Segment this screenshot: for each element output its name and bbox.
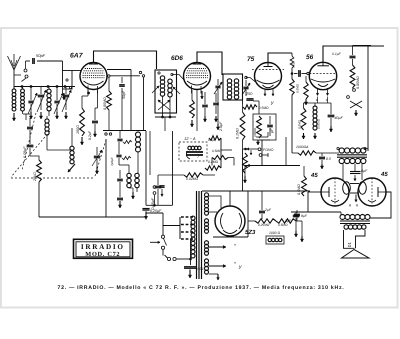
tube 45 left	[321, 178, 349, 206]
variable capacitor gang 2	[63, 94, 69, 96]
coil L1 antenna	[12, 89, 16, 93]
IF transformer T2 box	[223, 74, 243, 100]
wire B+ bus	[202, 190, 310, 192]
svg-text:250: 250	[245, 92, 253, 96]
ground output	[295, 231, 297, 237]
svg-text:IRRADIO: IRRADIO	[81, 243, 125, 251]
resistor 0.5M grid leak	[290, 79, 294, 95]
capacitor osc RC 2	[116, 154, 121, 156]
ground	[119, 201, 121, 208]
capacitor 001	[184, 266, 196, 268]
ground 001	[189, 270, 191, 279]
capacitor 250pF	[246, 98, 253, 100]
capacitor 6D6 bypass	[202, 104, 208, 106]
svg-text:150Ω: 150Ω	[76, 125, 80, 134]
resistor 0.5M AVC	[212, 156, 228, 160]
IF transformer T1 box	[155, 70, 177, 113]
capacitor to ground	[117, 197, 123, 199]
wire osc verticals	[105, 139, 107, 217]
capacitor bottom osc	[117, 178, 123, 180]
resistor 6D6 cathode	[190, 100, 195, 118]
resistor 150 ohm cathode	[80, 108, 85, 136]
wire output bus	[308, 192, 341, 212]
ground switch	[355, 110, 357, 116]
wire box down	[62, 89, 64, 93]
jack dots	[347, 96, 350, 99]
output transformer secondary	[344, 225, 348, 229]
svg-text:40µF: 40µF	[335, 116, 344, 120]
svg-text:0.5MΩ: 0.5MΩ	[298, 119, 302, 129]
svg-text:001: 001	[198, 267, 204, 271]
svg-text:01: 01	[347, 242, 352, 247]
tube 45 right	[358, 178, 386, 206]
wire 6D6 cathode	[191, 90, 193, 100]
wire speaker	[340, 212, 342, 215]
terminal dots T1	[158, 72, 160, 74]
svg-text:7µ0µF: 7µ0µF	[110, 157, 114, 166]
capacitor 8uF driver	[350, 171, 361, 173]
svg-text:50pF: 50pF	[36, 53, 46, 58]
capacitor 8uF output	[293, 214, 299, 216]
wire long vertical B+	[242, 85, 244, 104]
capacitor in box	[267, 124, 273, 126]
secondary winding 2	[205, 219, 209, 223]
varcap T2 left	[215, 85, 220, 87]
svg-text:0.5MΩ: 0.5MΩ	[259, 106, 270, 110]
trimmer arrows T1 sides	[152, 86, 159, 93]
wire	[146, 212, 163, 214]
resistor 1000 ohm in box	[257, 116, 262, 138]
capacitor 0.05uF coupling	[155, 185, 162, 187]
terminal dots row	[21, 86, 23, 88]
wire to taps	[163, 226, 180, 236]
voltage selector ladder	[179, 217, 181, 239]
potentiometer 0.5M volume	[243, 153, 248, 173]
svg-text:×: ×	[349, 203, 352, 209]
bias wirewound 10000 ohm	[313, 106, 317, 110]
svg-text:µF: µF	[270, 128, 274, 133]
wire to junction	[176, 258, 190, 260]
svg-text:0.05µF: 0.05µF	[151, 197, 155, 209]
ground box	[63, 93, 65, 100]
bias resistor 0.5M	[301, 108, 306, 130]
wire AF bus	[245, 165, 300, 167]
resistor osc RC 1	[123, 140, 132, 143]
svg-text:10000Ω: 10000Ω	[317, 118, 321, 129]
svg-text:45: 45	[380, 171, 388, 178]
filament ring right 45	[359, 182, 367, 194]
capacitor 0.5 decoupling	[319, 156, 325, 158]
transformer primary winding	[191, 216, 195, 220]
wire T1 down	[164, 117, 166, 131]
svg-text:×: ×	[356, 203, 359, 209]
dashed box pickup	[179, 142, 207, 161]
wire	[220, 138, 222, 168]
wire AF down	[291, 74, 293, 80]
wire detector to AF bus	[261, 140, 263, 166]
capacitor padder 0.05uF	[27, 144, 34, 146]
resistor 0.1M pickup	[209, 136, 221, 140]
wire ground bus	[39, 216, 146, 218]
filament ring left 45	[343, 182, 351, 194]
svg-text:×: ×	[234, 243, 236, 247]
filament winding 5Z3	[205, 241, 209, 245]
trimmer cross T1 bottom	[158, 100, 170, 110]
wire plates 5Z3	[208, 196, 221, 208]
capacitor osc RC 1	[117, 138, 122, 140]
choke 1000 ohm boxed	[266, 236, 284, 244]
wire	[203, 174, 215, 176]
wire 75 grid cap drop	[291, 53, 293, 56]
resistor 0.5M output	[302, 176, 307, 196]
svg-text:×: ×	[326, 98, 329, 103]
wire AVC	[243, 148, 246, 150]
svg-text:0.5: 0.5	[326, 157, 331, 161]
terminal dot plate	[108, 75, 110, 77]
wire top row 56	[323, 46, 353, 62]
wire 56 bias top	[303, 103, 305, 108]
pickup core	[186, 151, 203, 153]
capacitor 8uF filter	[294, 213, 300, 215]
svg-text:0.5MΩ: 0.5MΩ	[297, 184, 301, 195]
wire T1 to 6D6 grid	[172, 75, 184, 81]
wire lower left	[23, 113, 30, 115]
svg-text:25kΩ: 25kΩ	[33, 172, 37, 182]
wire	[47, 149, 72, 151]
ground 6D6 g3	[201, 91, 203, 99]
resistor 0.1M bias	[304, 82, 308, 99]
svg-text:×: ×	[316, 98, 319, 103]
capacitor coupling to 56 grid	[298, 70, 300, 77]
driver transformer primary	[339, 148, 344, 153]
switch contact 2	[167, 257, 170, 260]
variable capacitor gang 1	[38, 94, 44, 96]
antenna	[8, 56, 15, 70]
wire cathode leads	[87, 90, 89, 97]
switch mains arrow	[150, 241, 160, 243]
jack FONO upper	[258, 148, 261, 151]
wire detector	[258, 101, 260, 114]
resistor 0.05M vertical	[352, 59, 354, 65]
tube 75 legs	[264, 89, 266, 97]
ground heater	[217, 274, 219, 280]
capacitor 2uF filter	[259, 210, 265, 212]
svg-text:1000Ω: 1000Ω	[253, 127, 257, 137]
ground osc varcap	[96, 167, 98, 174]
wire T2 to 75 grid	[246, 78, 256, 83]
capacitor 50pF osc grid	[119, 84, 125, 86]
coil oscillator tank	[136, 132, 141, 137]
wire node 205	[146, 204, 173, 206]
svg-text:0.2µF: 0.2µF	[88, 130, 92, 140]
switch box grid	[63, 71, 73, 90]
wire plate stubs	[107, 69, 131, 71]
trimmer capacitor 1	[28, 100, 33, 102]
wire osc top bus	[103, 130, 146, 132]
resistor 0.05M screen	[107, 91, 112, 110]
ground cathode	[81, 137, 83, 145]
wire 6D6 bottom vertical	[196, 90, 198, 131]
IF T1 primary coil	[160, 76, 164, 80]
coil L5 oscillator	[70, 146, 74, 150]
jack dots lower	[153, 186, 156, 189]
IF T1 secondary coil	[168, 79, 172, 83]
capacitor input coupling	[27, 126, 33, 128]
tube 6D6	[184, 63, 211, 90]
svg-text:0.1MΩ: 0.1MΩ	[236, 128, 240, 139]
svg-text:12 ~ A: 12 ~ A	[184, 136, 196, 141]
ground pot	[244, 176, 246, 183]
svg-text:0.1µF: 0.1µF	[332, 52, 342, 56]
resistor grid stopper	[290, 56, 294, 68]
wire top cap 75	[268, 53, 292, 63]
wire plate right 45	[370, 192, 391, 218]
svg-text:6D6: 6D6	[171, 55, 183, 62]
wire plate left 45	[308, 191, 321, 193]
capacitor 0.25uF	[142, 208, 149, 210]
IF T2 secondary coil	[234, 79, 238, 83]
output transformer core	[340, 220, 370, 222]
ground trimmer 1	[30, 112, 32, 119]
ground filter	[301, 236, 303, 242]
jack FONO lower	[259, 154, 262, 157]
coil L3	[47, 89, 51, 93]
terminal dots osc	[105, 133, 107, 135]
power transformer core	[196, 191, 198, 279]
switch contact 1	[161, 235, 164, 238]
svg-text:y: y	[238, 264, 242, 270]
ground bias	[303, 133, 305, 139]
ground 6D6 cathode	[191, 120, 193, 127]
resistor 0.2M pickup	[205, 166, 221, 170]
tube 56	[309, 62, 336, 89]
svg-text:1000ΩΔ: 1000ΩΔ	[296, 145, 309, 149]
resistor 25000 ohm	[37, 160, 42, 182]
wire coil top bus	[14, 86, 75, 88]
wire bottom junction	[155, 116, 176, 118]
ground 025	[145, 211, 147, 219]
svg-text:6A7: 6A7	[70, 53, 84, 60]
svg-text:0.5MΩ: 0.5MΩ	[278, 223, 288, 227]
ground fono	[257, 140, 259, 145]
coil pickup	[188, 146, 192, 150]
trimmer capacitor 2	[54, 100, 59, 102]
wire grid into tube	[72, 70, 81, 72]
svg-text:0.01: 0.01	[292, 62, 296, 68]
resistor 0.5M filter	[276, 219, 296, 223]
wire grids 45	[342, 164, 344, 180]
secondary HV winding	[205, 193, 209, 197]
wire cap feed	[14, 74, 21, 76]
svg-text:2µF: 2µF	[264, 208, 272, 212]
wire top cap 6A7 to T1	[94, 51, 157, 69]
terminal dots transformer	[337, 147, 339, 149]
svg-text:y: y	[270, 100, 274, 106]
wire top fono	[256, 136, 268, 138]
tube 75	[255, 63, 282, 90]
capacitor 40uF	[328, 114, 335, 116]
wire switch	[162, 250, 164, 256]
svg-text:MOD. C72: MOD. C72	[85, 251, 120, 258]
wire left vertical to bus	[38, 182, 40, 217]
speaker cone	[342, 250, 370, 259]
ground pot arrow	[250, 150, 252, 155]
svg-text:0.5MΩ: 0.5MΩ	[296, 83, 300, 93]
resistor osc RC 2	[122, 156, 131, 159]
svg-text:5Z3: 5Z3	[245, 229, 256, 236]
arrow pot wiper	[247, 148, 259, 150]
resistor 0.25M filter	[255, 219, 276, 223]
svg-text:75: 75	[247, 56, 255, 63]
tube 5Z3	[215, 206, 245, 236]
svg-text:50pF: 50pF	[122, 90, 126, 99]
tube 56 legs	[317, 88, 319, 96]
filament arrow 1	[209, 246, 226, 248]
resistor 0.1M vertical	[240, 112, 245, 140]
voice coil leads	[344, 230, 355, 248]
svg-text:0.2MΩ: 0.2MΩ	[208, 160, 219, 164]
wire	[172, 131, 174, 205]
driver transformer core	[337, 154, 367, 156]
coil padder B	[135, 173, 139, 177]
terminal dot T2	[245, 76, 247, 78]
svg-text:FONO: FONO	[263, 148, 274, 152]
wire T1 bottoms	[162, 96, 164, 117]
ground L1	[13, 113, 15, 121]
ground	[305, 99, 307, 105]
junction	[291, 72, 294, 75]
svg-text:2.0µF: 2.0µF	[219, 121, 223, 132]
junction dot	[87, 92, 90, 95]
jack dots right of 6A7	[139, 71, 141, 73]
svg-text:56: 56	[306, 54, 314, 61]
coil L4	[45, 119, 49, 123]
filament winding heaters	[205, 259, 209, 263]
svg-text:0.05MΩ: 0.05MΩ	[103, 97, 107, 110]
switch antenna	[24, 69, 27, 72]
coil padder A	[127, 173, 131, 177]
wire vertical x286	[285, 137, 287, 166]
capacitor screen 0.1uF	[213, 102, 219, 104]
wire filter	[248, 220, 255, 222]
wire bus	[353, 45, 385, 47]
driver transformer secondary	[339, 158, 344, 163]
variable capacitor oscillator	[94, 155, 100, 157]
svg-text:0.05MΩ: 0.05MΩ	[356, 76, 360, 89]
varcap T2 right	[243, 86, 248, 88]
dashed grid line 75	[252, 69, 284, 71]
nameplate box IRRADIO MOD C72	[74, 239, 133, 258]
coil L2	[21, 89, 25, 93]
output transformer primary	[340, 215, 345, 220]
wire	[30, 156, 39, 160]
detector network box	[253, 114, 276, 140]
wire right vertical	[367, 46, 369, 152]
capacitor 0.1uF top	[350, 55, 356, 57]
wire top cap 6D6 to T2	[197, 52, 222, 75]
capacitor 50pF antenna	[32, 58, 34, 64]
capacitor 0.2uF	[92, 120, 98, 122]
tube 6A7	[80, 63, 107, 90]
svg-text:8µF: 8µF	[301, 214, 308, 218]
wire top to grid box	[37, 60, 63, 62]
arrow coil tap	[68, 164, 75, 172]
svg-text:×: ×	[234, 261, 236, 265]
svg-text:72. — IRRADIO. — Modello « C 7: 72. — IRRADIO. — Modello « C 72 R. F. ».…	[58, 285, 345, 291]
capacitor small	[159, 185, 164, 187]
svg-text:1000 Ω: 1000 Ω	[269, 231, 280, 235]
IF T2 primary coil	[227, 79, 231, 83]
filament links	[350, 183, 359, 185]
svg-text:45: 45	[310, 172, 318, 179]
resistor 0.02M	[184, 173, 203, 177]
svg-text:0.02MΩ: 0.02MΩ	[186, 177, 198, 181]
dashed gang lines	[11, 131, 50, 177]
svg-text:0.25MΩ: 0.25MΩ	[258, 223, 270, 227]
filament arrow 2	[209, 265, 226, 267]
terminal dot 56 grid	[307, 72, 309, 74]
resistor 0.5M diode load	[243, 105, 257, 109]
cathode arrow 45	[355, 195, 357, 203]
wire plate 56	[316, 152, 339, 154]
wire	[365, 149, 368, 152]
switch scissors	[350, 101, 362, 108]
